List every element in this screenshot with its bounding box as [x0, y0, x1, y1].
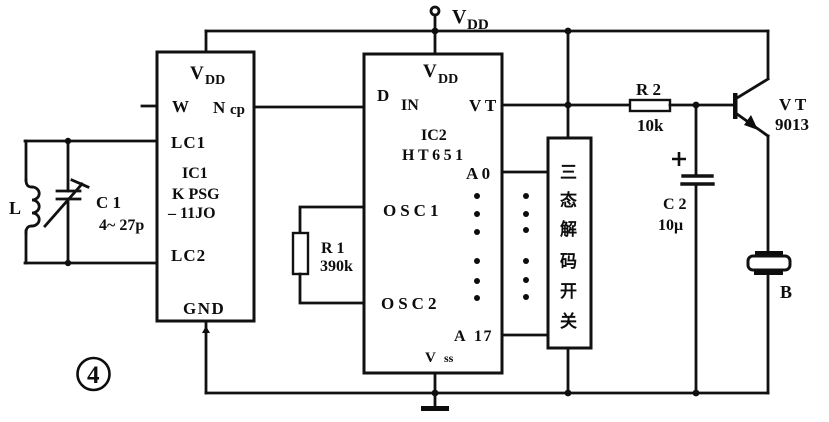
label IC1 Ncp pin: [213, 98, 245, 118]
label IC2 VT pin: [469, 96, 497, 115]
svg-text:解: 解: [560, 219, 577, 239]
node junction tank top: [65, 138, 71, 144]
dots column decode inputs: [523, 193, 529, 300]
decode switch text 三态解码开关: [560, 163, 577, 331]
svg-text:V: V: [452, 6, 467, 28]
label IC1 LC2 pin: [171, 246, 206, 265]
svg-text:IC2: IC2: [421, 127, 447, 144]
svg-text:V T: V T: [469, 96, 497, 115]
label IC2 A0 pin: [466, 164, 490, 183]
ground symbol: [421, 393, 449, 411]
wire decode switch to ground rail: [567, 348, 570, 393]
buzzer B: [748, 251, 790, 393]
svg-text:N: N: [213, 98, 226, 117]
wire tank bottom to LC2: [25, 262, 157, 265]
svg-text:V: V: [190, 63, 204, 84]
svg-text:V: V: [425, 350, 436, 366]
wire IC1 GND to ground rail: [202, 321, 210, 393]
svg-text:LC1: LC1: [171, 133, 206, 152]
svg-text:390k: 390k: [320, 258, 353, 275]
svg-text:L: L: [9, 198, 21, 218]
svg-text:GND: GND: [183, 299, 225, 318]
resistor R1: [293, 233, 308, 274]
label R1 value: [320, 240, 353, 275]
IC U2 box IC2 HT651: [364, 54, 502, 373]
node junction ground at decode switch: [565, 390, 572, 397]
resistor R2: [630, 100, 670, 111]
svg-text:三: 三: [560, 163, 577, 182]
capacitor C2: [682, 105, 713, 393]
svg-text:10k: 10k: [637, 116, 664, 135]
svg-text:K PSG: K PSG: [172, 186, 220, 203]
label IC1 VDD pin: [190, 63, 225, 88]
svg-text:C 1: C 1: [96, 193, 121, 212]
inductor L: [26, 141, 39, 263]
node junction ground at C2: [693, 390, 700, 397]
capacitor C1 variable: [45, 144, 88, 263]
svg-text:V T: V T: [779, 95, 807, 114]
node junction base/C2: [693, 102, 700, 109]
wire A0 pin to decode switch: [502, 171, 548, 174]
label IC1 part KPSG: [172, 186, 220, 203]
IC U1 box IC1 KPSG-11JO: [157, 52, 254, 321]
decode switch box: [548, 138, 591, 348]
svg-text:A 0: A 0: [466, 164, 490, 183]
label IC2 A17 pin: [454, 328, 493, 345]
label IC1 name: [182, 165, 208, 182]
figure number 4: [78, 358, 110, 390]
wire R2 to transistor base: [670, 104, 734, 107]
label IC1 LC1 pin: [171, 133, 206, 152]
wire IC1 top to rail: [205, 31, 208, 52]
label IC1 GND pin: [183, 299, 225, 318]
wire Vss to ground rail: [434, 373, 437, 393]
svg-text:关: 关: [560, 311, 577, 331]
wire VT pin to R2: [502, 104, 630, 107]
svg-text:R 2: R 2: [636, 80, 661, 99]
node junction VT wire crossing: [565, 102, 572, 109]
svg-text:D: D: [377, 86, 389, 105]
svg-text:DD: DD: [205, 73, 225, 88]
wire W pin stub: [142, 105, 157, 108]
label IC2 name: [421, 127, 447, 144]
svg-text:DD: DD: [438, 72, 458, 87]
svg-text:9013: 9013: [775, 115, 809, 134]
svg-text:码: 码: [560, 252, 577, 271]
node junction ground at Vss: [432, 390, 439, 397]
svg-text:C 2: C 2: [663, 196, 687, 213]
dots column IC2 outputs: [474, 193, 480, 301]
wire R1 to OSC2: [300, 274, 364, 303]
label IC2 Vss pin: [425, 350, 454, 366]
svg-text:IN: IN: [401, 97, 419, 114]
node junction VDD rail to decode switch: [565, 28, 572, 35]
label IC2 D pin: [377, 86, 389, 105]
wire VDD rail down to decode switch box: [567, 31, 570, 138]
wire Ncp to D (IC1 to IC2): [254, 106, 364, 109]
wire A17 pin to decode switch: [502, 334, 548, 337]
label L inductor: [9, 198, 21, 218]
label VT 9013: [775, 95, 809, 134]
wire ground rail: [206, 392, 768, 395]
label C1 value: [96, 193, 144, 234]
svg-text:B: B: [780, 282, 792, 302]
wire top VDD rail: [206, 30, 768, 33]
svg-text:开: 开: [560, 282, 577, 301]
svg-text:W: W: [172, 97, 189, 116]
svg-text:17: 17: [474, 328, 493, 345]
label VDD top: [452, 6, 489, 33]
label IC2 OSC2 pin: [381, 294, 440, 313]
svg-text:ss: ss: [444, 351, 454, 365]
label IC1 W pin: [172, 97, 189, 116]
svg-text:HT651: HT651: [402, 147, 467, 164]
svg-text:V: V: [423, 61, 437, 82]
label C2 value: [658, 152, 687, 234]
label IC2 part HT651: [402, 147, 467, 164]
label B buzzer: [780, 282, 792, 302]
svg-text:cp: cp: [230, 102, 245, 118]
label IC2 OSC1 pin: [383, 201, 442, 220]
svg-text:4~ 27p: 4~ 27p: [99, 217, 144, 234]
svg-text:R 1: R 1: [321, 240, 345, 257]
node junction VDD rail at IC2 feed: [432, 28, 439, 35]
VDD supply terminal: [431, 7, 439, 54]
svg-text:A: A: [454, 328, 466, 345]
label IC2 VDD pin: [423, 61, 458, 87]
wire OSC1 to R1: [300, 207, 364, 233]
svg-text:OSC1: OSC1: [383, 201, 442, 220]
wire tank top: [25, 140, 157, 143]
label R2 value: [636, 80, 664, 135]
label IC2 IN pin: [401, 97, 419, 114]
svg-text:4: 4: [87, 362, 100, 389]
svg-text:– 11JO: – 11JO: [167, 205, 216, 222]
svg-text:LC2: LC2: [171, 246, 206, 265]
svg-text:态: 态: [560, 190, 577, 210]
svg-text:DD: DD: [467, 17, 489, 33]
svg-text:OSC2: OSC2: [381, 294, 440, 313]
svg-text:10μ: 10μ: [658, 217, 683, 234]
transistor Q1 VT 9013: [733, 31, 768, 252]
label IC1 part -11JO: [167, 205, 216, 222]
node junction tank bottom: [65, 260, 71, 266]
svg-text:IC1: IC1: [182, 165, 208, 182]
